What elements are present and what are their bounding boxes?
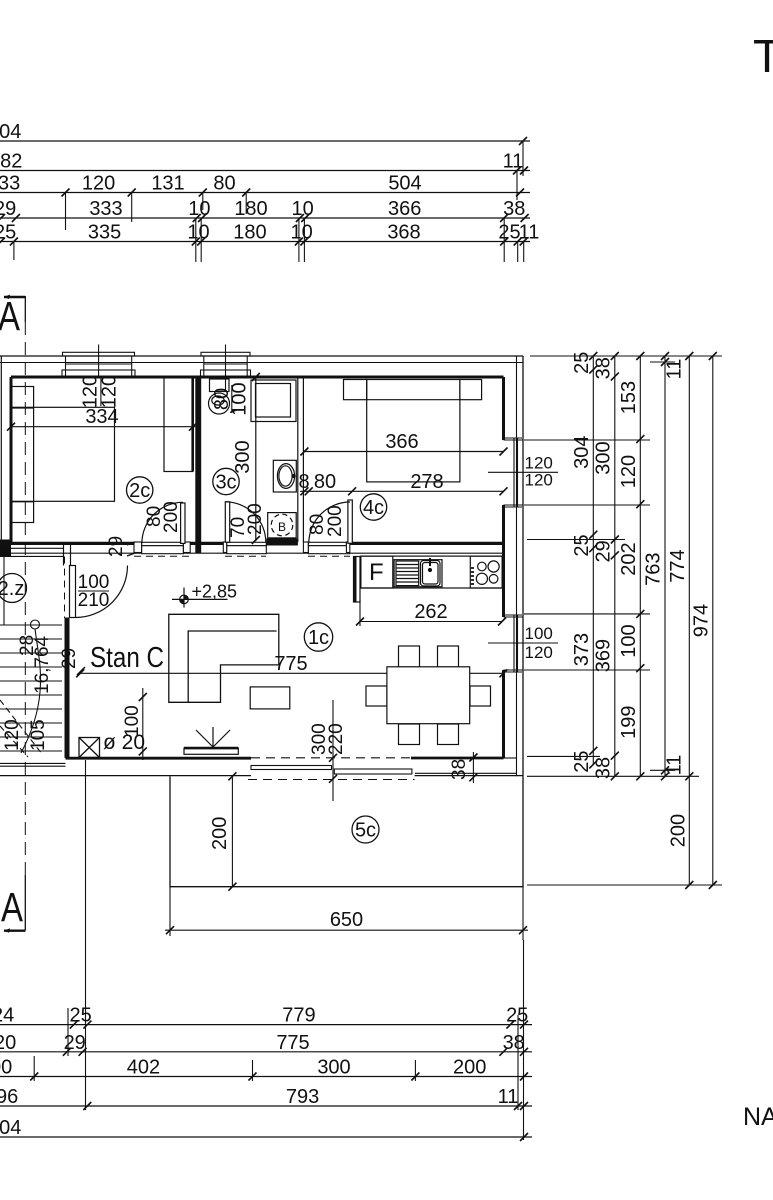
- axis: [98, 345, 100, 378]
- svg-text:4c: 4c: [363, 497, 384, 519]
- svg-text:1c: 1c: [308, 627, 329, 649]
- extension verticals: [34, 760, 523, 1140]
- washing machine: [251, 380, 296, 422]
- 775 dim line: [80, 672, 503, 674]
- svg-text:366: 366: [385, 431, 418, 453]
- window label 100/120 right (living): [525, 624, 553, 662]
- svg-text:11: 11: [503, 151, 524, 173]
- swing arc: [76, 566, 128, 618]
- ticks bottom chains: [30, 1021, 528, 1141]
- svg-text:100: 100: [525, 624, 553, 643]
- right wall facade: [516, 356, 518, 776]
- svg-text:120: 120: [525, 643, 553, 662]
- dim line 904: [0, 140, 530, 142]
- svg-text:29: 29: [0, 198, 16, 220]
- lines at stair block: [0, 762, 66, 764]
- window label 80/100 (W2) in bathroom: [211, 382, 251, 415]
- window label 120/120 right (4c): [525, 454, 553, 490]
- svg-text:25: 25: [571, 352, 593, 374]
- svg-text:335: 335: [88, 222, 121, 244]
- svg-text:200: 200: [161, 501, 182, 533]
- door 2c: leaf + arc: [142, 502, 185, 543]
- svg-text:304: 304: [571, 436, 593, 469]
- svg-text:210: 210: [78, 590, 110, 611]
- svg-text:38: 38: [503, 198, 525, 220]
- sliding panels: [251, 766, 332, 770]
- door 3c: leaf + arc (hinge left): [225, 502, 265, 542]
- svg-text:199: 199: [618, 706, 640, 739]
- svg-text:20: 20: [0, 1032, 16, 1054]
- bottom face thin: [0, 552, 504, 554]
- dim line row3: [0, 192, 530, 194]
- svg-text:10: 10: [188, 198, 210, 220]
- axis line: [488, 471, 558, 473]
- window W2 top wall 80: [201, 345, 251, 391]
- railing curve: [31, 620, 40, 629]
- window right wall living (100): [488, 615, 558, 672]
- svg-text:120: 120: [82, 173, 115, 195]
- svg-text:402: 402: [127, 1057, 160, 1079]
- svg-text:200: 200: [325, 505, 346, 537]
- svg-text:120: 120: [2, 719, 23, 751]
- extension stubs below row5 / between rows: [14, 141, 524, 262]
- svg-text:334: 334: [85, 406, 118, 428]
- svg-text:120: 120: [99, 375, 121, 408]
- room label 2c: [127, 477, 153, 503]
- svg-text:200: 200: [668, 814, 690, 847]
- svg-text:775: 775: [276, 1032, 309, 1054]
- 2.z circle: [0, 574, 27, 603]
- svg-text:38: 38: [593, 357, 615, 379]
- svg-text:368: 368: [387, 222, 420, 244]
- svg-text:775: 775: [274, 653, 307, 675]
- svg-text:11: 11: [498, 1086, 519, 1108]
- svg-text:29: 29: [64, 1032, 86, 1054]
- svg-text:5c: 5c: [355, 820, 376, 842]
- svg-text:8: 8: [298, 471, 309, 493]
- corridor-stair wall below entry (thick): [65, 618, 70, 759]
- dim line 334: [11, 426, 195, 428]
- svg-text:369: 369: [593, 639, 615, 672]
- svg-text:904: 904: [0, 1117, 21, 1139]
- column with X: [79, 738, 100, 758]
- 200 dim: [231, 776, 233, 886]
- svg-text:300: 300: [232, 440, 254, 473]
- svg-text:25: 25: [0, 222, 16, 244]
- stove: [470, 556, 502, 588]
- svg-text:2c: 2c: [129, 480, 150, 502]
- svg-text:T: T: [753, 30, 773, 82]
- horizontal extension lines: [530, 355, 722, 357]
- svg-text:373: 373: [571, 633, 593, 666]
- dim 8/80/278 line: [300, 490, 504, 492]
- horizontal lines left of entry: [0, 547, 64, 549]
- svg-text:100: 100: [618, 624, 640, 657]
- svg-text:Stan C: Stan C: [90, 642, 164, 674]
- svg-text:B: B: [278, 520, 286, 534]
- left wall inner (thick): [10, 377, 13, 543]
- svg-text:10: 10: [291, 198, 313, 220]
- right segment: [411, 757, 504, 760]
- svg-text:F: F: [369, 559, 384, 586]
- top wall inner face (thick): [11, 376, 504, 379]
- thick top face segments: [0, 542, 504, 545]
- 300/220 vertical dim: [332, 700, 334, 801]
- level mark +2,85: [172, 582, 237, 608]
- left wall outer: [0, 356, 2, 544]
- TV bench + antenna: [184, 748, 238, 754]
- svg-text:200: 200: [209, 817, 231, 850]
- svg-text:16,764: 16,764: [32, 635, 53, 694]
- svg-text:25: 25: [69, 1005, 91, 1027]
- svg-text:25: 25: [506, 1005, 528, 1027]
- rotated texts right chains: [571, 352, 713, 848]
- svg-text:25: 25: [498, 222, 520, 244]
- svg-text:882: 882: [0, 151, 22, 173]
- axis line: [488, 642, 558, 644]
- svg-text:202: 202: [618, 542, 640, 575]
- ticks on right chains: [589, 352, 717, 889]
- svg-text:278: 278: [410, 471, 443, 493]
- svg-text:11: 11: [519, 222, 540, 244]
- bed: [367, 380, 460, 482]
- svg-text:+2,85: +2,85: [192, 582, 238, 602]
- svg-text:38: 38: [503, 1032, 525, 1054]
- 300 dim vertical: [255, 377, 257, 541]
- tick marks top chains: [0, 137, 529, 246]
- svg-text:NA: NA: [743, 1103, 773, 1131]
- svg-text:120: 120: [618, 455, 640, 488]
- svg-text:220: 220: [326, 723, 347, 755]
- texts bottom chains: [0, 1005, 528, 1139]
- nightstand left: [344, 380, 367, 400]
- dashed opening lines: [251, 757, 415, 759]
- top wall facade line: [0, 362, 523, 364]
- window W1 top wall 120: [62, 345, 135, 378]
- svg-text:120: 120: [525, 471, 553, 490]
- svg-text:38: 38: [449, 759, 470, 780]
- svg-text:105: 105: [28, 719, 49, 751]
- svg-text:974: 974: [691, 604, 713, 637]
- svg-text:763: 763: [643, 553, 665, 586]
- svg-text:80: 80: [314, 471, 336, 493]
- door 4c: leaf + arc: [309, 500, 353, 543]
- top wall outer face: [0, 355, 523, 357]
- sofa: [169, 614, 279, 702]
- dashed opening line: [64, 557, 66, 619]
- dim 366 line: [304, 451, 503, 453]
- washbasin: [273, 460, 296, 492]
- partition 3c|4c double line: [298, 377, 304, 542]
- corridor wall stub above entry: [63, 544, 65, 566]
- svg-text:131: 131: [151, 173, 184, 195]
- svg-text:300: 300: [593, 441, 615, 474]
- svg-text:11: 11: [664, 755, 686, 776]
- svg-text:504: 504: [388, 173, 421, 195]
- 38 dim at wall: [472, 752, 474, 783]
- svg-text:00: 00: [0, 1057, 12, 1079]
- svg-text:180: 180: [233, 222, 266, 244]
- svg-text:25: 25: [571, 750, 593, 772]
- svg-text:650: 650: [330, 909, 363, 931]
- filled chunks: [0, 540, 11, 558]
- bed: [11, 407, 115, 501]
- fridge F: [361, 556, 393, 588]
- svg-text:3c: 3c: [215, 472, 236, 494]
- svg-text:774: 774: [667, 549, 689, 582]
- svg-text:A: A: [1, 884, 24, 930]
- svg-text:29: 29: [106, 536, 127, 557]
- svg-text:904: 904: [0, 121, 21, 143]
- stairs: [0, 557, 62, 758]
- dim line row5: [0, 241, 530, 243]
- bottom outer line full width: [0, 775, 251, 777]
- top chain texts: [0, 121, 539, 244]
- window right wall 4c (120): [488, 438, 558, 507]
- svg-text:25: 25: [571, 534, 593, 556]
- svg-text:300: 300: [317, 1057, 350, 1079]
- side wall stub: [354, 557, 361, 603]
- door frames and thresholds: [134, 542, 350, 554]
- svg-text:96: 96: [0, 1086, 18, 1108]
- svg-text:366: 366: [388, 198, 421, 220]
- boiler: [268, 513, 297, 538]
- section marker A (bottom): [1, 884, 25, 933]
- dim line row4: [0, 217, 530, 219]
- 100 dim near column: [142, 688, 144, 760]
- wardrobe right: [164, 378, 193, 472]
- 1c label: [304, 623, 332, 651]
- right wall inner thick segments: [502, 377, 505, 440]
- svg-text:333: 333: [89, 198, 122, 220]
- svg-text:29: 29: [59, 648, 80, 669]
- counter outline: [361, 556, 502, 588]
- right wall outer: [522, 356, 524, 776]
- svg-text:38: 38: [593, 757, 615, 779]
- window label 120/120 (W1) in room 2c: [80, 375, 121, 408]
- svg-text:11: 11: [664, 359, 686, 380]
- svg-text:80: 80: [213, 173, 235, 195]
- svg-text:779: 779: [282, 1005, 315, 1027]
- door leaf: [70, 566, 76, 618]
- svg-text:24: 24: [0, 1005, 14, 1027]
- partition 2c|3c (filled): [195, 377, 201, 553]
- svg-text:180: 180: [234, 198, 267, 220]
- svg-text:153: 153: [618, 381, 640, 414]
- svg-text:793: 793: [286, 1086, 319, 1108]
- svg-text:100: 100: [122, 705, 143, 737]
- 262 dim: [360, 621, 502, 623]
- toilet: [210, 379, 230, 392]
- left segment thick: [66, 757, 252, 760]
- svg-text:29: 29: [593, 540, 615, 562]
- svg-text:10: 10: [187, 222, 209, 244]
- coffee table: [250, 687, 290, 709]
- winder dashed: [0, 700, 42, 754]
- dim line 882: [0, 170, 530, 172]
- closet strip left: [11, 387, 34, 523]
- 650 dim: [169, 887, 171, 936]
- svg-text:200: 200: [453, 1057, 486, 1079]
- svg-text:33: 33: [0, 173, 20, 195]
- svg-text:262: 262: [414, 601, 447, 623]
- svg-text:A: A: [0, 293, 21, 339]
- svg-text:10: 10: [290, 222, 312, 244]
- nightstand right: [460, 380, 482, 400]
- sink unit: [394, 560, 442, 587]
